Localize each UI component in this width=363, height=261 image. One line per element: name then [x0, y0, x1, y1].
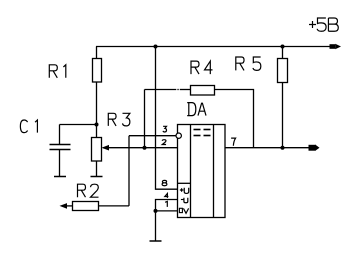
resistor R5 body: [278, 59, 288, 83]
wire R4 left horizontal: [145, 89, 177, 91]
wire R4 lead to resistor: [180, 89, 191, 91]
wire C1 bottom lead: [59, 150, 61, 177]
junction dot wiper-R4: [143, 146, 147, 150]
arrow output right: [309, 145, 316, 151]
wire pin 3 horizontal: [129, 135, 176, 137]
junction dot pin1-ground: [154, 209, 158, 213]
wire R3 wiper to pin 2: [103, 147, 178, 149]
resistor R4 body: [191, 86, 215, 96]
pin label 1: [165, 201, 167, 206]
wire +5V top rail: [96, 46, 330, 48]
DA divider right: [213, 125, 215, 218]
label R1: [49, 65, 65, 78]
DA supply strip tick: [178, 182, 191, 184]
label R4: [191, 61, 213, 74]
wire pin 1: [156, 210, 178, 212]
label R3: [108, 113, 130, 126]
DA divider left: [190, 125, 192, 218]
wire pin 4: [156, 200, 178, 242]
wire R2 right lead: [99, 205, 130, 207]
junction dot rail-supply: [154, 45, 158, 49]
wire R5 bottom lead: [282, 83, 284, 148]
label 0V: [179, 208, 188, 213]
arrow top rail right: [330, 44, 336, 49]
label DA: [187, 103, 206, 116]
wire R3 bottom lead: [96, 161, 98, 177]
junction dot rail-R5: [281, 45, 285, 49]
ground bar under R3: [91, 176, 103, 178]
wire R1 top lead: [96, 47, 98, 59]
arrow R2 left: [60, 203, 68, 209]
pin label 2: [162, 140, 166, 145]
arrow R3 wiper: [102, 145, 110, 151]
resistor R3 body: [92, 138, 102, 162]
wire R2 left lead: [66, 205, 73, 207]
wire R4 right horizontal: [215, 90, 254, 148]
label -U: [181, 198, 188, 203]
op-amp DA box: [178, 125, 226, 218]
resistor R2 body: [73, 202, 99, 211]
ground bar under DA: [150, 240, 162, 242]
pin label 7: [231, 138, 235, 146]
ground bar under C1: [54, 176, 66, 178]
wire R4 left branch vertical: [144, 90, 146, 148]
wire R4 gap dash: [177, 89, 178, 91]
pin label 8: [162, 180, 167, 185]
wire C1 top lead: [59, 125, 61, 145]
wire C1 branch horizontal: [60, 124, 97, 126]
wire R5 top lead: [282, 47, 284, 59]
capacitor C1 plates: [50, 144, 71, 146]
label +5B: [309, 18, 338, 31]
wire pin3 to R2 vertical: [128, 136, 130, 206]
label R5: [236, 57, 261, 70]
junction dot C1 node: [95, 123, 99, 127]
wire supply vertical to pin 8: [156, 47, 178, 190]
label +U: [180, 188, 189, 194]
pin label 4: [165, 194, 169, 198]
wire output pin 7: [225, 147, 309, 149]
junction dot output-R5: [281, 146, 285, 150]
resistor R1 body: [93, 59, 102, 83]
label C1: [20, 120, 37, 133]
wire R1 bottom lead to R3 top: [96, 82, 98, 138]
pin 3 inversion bubble: [176, 133, 181, 138]
DA comparator symbol dashes: [194, 129, 201, 131]
label R2: [78, 184, 99, 197]
pin label 3: [163, 126, 166, 132]
